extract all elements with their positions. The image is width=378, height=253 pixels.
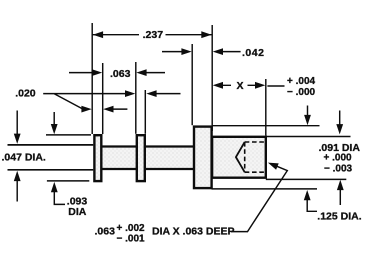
svg-text:.047 DIA.: .047 DIA. bbox=[2, 152, 46, 164]
svg-text:DIA: DIA bbox=[68, 206, 87, 218]
svg-text:− .000: − .000 bbox=[287, 87, 316, 98]
svg-text:.125 DIA.: .125 DIA. bbox=[317, 210, 361, 222]
svg-text:+ .004: + .004 bbox=[287, 76, 316, 87]
svg-text:.063: .063 bbox=[110, 68, 131, 80]
svg-text:.237: .237 bbox=[143, 29, 164, 41]
svg-text:+ .000: + .000 bbox=[324, 153, 353, 164]
svg-text:.042: .042 bbox=[242, 47, 264, 59]
svg-text:− .003: − .003 bbox=[324, 164, 353, 175]
svg-text:− .001: − .001 bbox=[117, 234, 146, 245]
svg-text:X: X bbox=[237, 80, 244, 92]
svg-text:DIA X .063 DEEP: DIA X .063 DEEP bbox=[152, 225, 234, 237]
svg-text:.063: .063 bbox=[95, 225, 116, 237]
svg-text:+ .002: + .002 bbox=[117, 223, 146, 234]
svg-text:.020: .020 bbox=[15, 88, 36, 100]
